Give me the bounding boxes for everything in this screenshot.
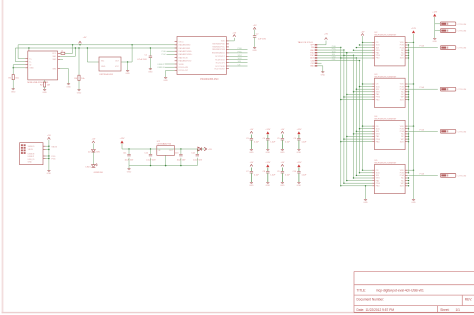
- svg-text:GND: GND: [280, 185, 285, 187]
- connector J2 GND: [440, 29, 466, 33]
- diode D3: [198, 147, 202, 151]
- svg-text:MCP4XXXX-XXXE/ST: MCP4XXXX-XXXE/ST: [375, 35, 398, 37]
- svg-text:L1: L1: [61, 50, 63, 52]
- ground below R4: [77, 90, 82, 95]
- wire U2 pin SCK to bus: [359, 44, 372, 45]
- wire U5 POA out: [407, 172, 437, 175]
- svg-text:Sheet:: Sheet:: [440, 308, 449, 312]
- wire U2 pin WP to rail: [407, 55, 409, 56]
- wire net A horizontal run y=44.8: [18, 45, 177, 59]
- svg-text:GND: GND: [249, 152, 254, 154]
- ground below +12V input: [432, 38, 437, 43]
- svg-text:0.1uF: 0.1uF: [285, 174, 291, 176]
- wire U3 pin PB0 to bus: [340, 99, 372, 100]
- connector J1 +12V: [440, 22, 466, 26]
- svg-text:PB0: PB0: [376, 99, 380, 101]
- wire IC1 net label CS: [229, 65, 248, 67]
- svg-text:SH3: SH3: [53, 68, 57, 70]
- svg-text:VBUS: VBUS: [28, 149, 34, 151]
- wire U2 pin PA0 to bus: [346, 52, 372, 53]
- wire U4 pin SDO to rail: [407, 141, 409, 142]
- svg-text:VCC: VCC: [115, 66, 120, 68]
- svg-text:CTRL0M: CTRL0M: [458, 24, 467, 26]
- svg-text:RB4/KBI0/AN11: RB4/KBI0/AN11: [212, 52, 225, 55]
- wire SV1 net SCK to bus: [317, 51, 347, 53]
- wire X1 pin to net B: [60, 47, 76, 56]
- wire bus column CS1: [359, 61, 361, 173]
- svg-text:RC2/CCP1: RC2/CCP1: [216, 62, 225, 64]
- wire U2 pin NC to rail: [407, 50, 409, 51]
- wire X1 VBUS stub to net B: [28, 47, 29, 49]
- svg-text:PB0: PB0: [376, 58, 380, 60]
- wire SV1 net SDI to bus: [317, 54, 354, 56]
- wire U3 pin NC to rail: [407, 94, 409, 95]
- svg-text:SDI: SDI: [238, 61, 242, 63]
- wire +12V input vertical: [435, 17, 441, 38]
- wire U4 pin CS to bus: [362, 125, 372, 126]
- wire U3 pin NC to rail: [407, 91, 409, 92]
- wire U5 VSS to ground: [365, 185, 366, 199]
- svg-text:RB5/KBI1/PGM: RB5/KBI1/PGM: [212, 49, 225, 51]
- wire SV1 pin 8 stub: [317, 62, 321, 64]
- wire U3 pin VSS to bus: [353, 91, 372, 92]
- regulator IC2 L4931ABDT50: [157, 141, 175, 155]
- wire oscillator ground drop: [127, 62, 129, 70]
- svg-text:SDO: SDO: [400, 186, 405, 188]
- ground below C2: [252, 48, 257, 53]
- svg-text:PB0: PB0: [376, 186, 380, 188]
- oscillator Q1: [99, 57, 121, 76]
- svg-text:RA0/AN0/BM0: RA0/AN0/BM0: [179, 44, 191, 47]
- wire ground rail under regulator: [129, 158, 197, 167]
- wire U2 pin NC to rail: [407, 52, 409, 53]
- wire U3 pin PW0 to bus: [343, 96, 372, 97]
- wire bus column SCK: [346, 53, 348, 181]
- svg-text:Document Number:: Document Number:: [357, 298, 385, 302]
- resistor R1: [9, 75, 20, 80]
- svg-text:VUSB: VUSB: [179, 64, 185, 66]
- wire IC1 net label SDO: [229, 55, 248, 57]
- svg-text:GND: GND: [101, 66, 106, 68]
- capacitor C3 decoupling chain: [246, 129, 260, 154]
- wire U3 pin POB to rail: [407, 86, 409, 87]
- connector output J4: [440, 87, 466, 91]
- svg-text:C9: C9: [277, 171, 279, 173]
- svg-text:REV:: REV:: [465, 298, 472, 302]
- wire SV1 net PGD to bus: [317, 46, 341, 48]
- svg-text:GND: GND: [66, 86, 71, 88]
- connector output J3: [440, 46, 466, 50]
- svg-text:KBTX640U24: KBTX640U24: [100, 74, 114, 76]
- wire U5 pin WP to rail: [407, 183, 409, 184]
- svg-text:SH2: SH2: [53, 59, 57, 61]
- svg-text:CS1: CS1: [332, 59, 336, 61]
- wire bus column +5V: [362, 36, 364, 170]
- wire bus column CS0: [355, 58, 357, 175]
- svg-text:0.1uF 50V: 0.1uF 50V: [146, 159, 156, 161]
- svg-text:GND: GND: [148, 71, 153, 73]
- wire R4 to ground: [78, 81, 80, 90]
- wire U2 POA out: [407, 45, 437, 48]
- title block document number row: [357, 298, 473, 302]
- svg-text:1M: 1M: [47, 85, 50, 87]
- svg-text:C10: C10: [293, 171, 296, 173]
- svg-text:CTRL0M: CTRL0M: [458, 131, 467, 133]
- svg-text:L4931ABDT50: L4931ABDT50: [157, 143, 172, 146]
- wire U5 pin PB0 to bus: [340, 185, 372, 186]
- wire U4 pin NC to rail: [407, 136, 409, 137]
- svg-text:+5V: +5V: [250, 162, 254, 164]
- wire U3 pin SCK to bus: [359, 86, 372, 87]
- svg-text:1.0uF: 1.0uF: [302, 174, 308, 176]
- svg-text:PGD: PGD: [238, 48, 243, 50]
- resistor R2: [40, 82, 50, 87]
- wire U5 pin CS to bus: [362, 170, 372, 171]
- svg-text:mcp-digital-pot-eval-4ch-USB-v: mcp-digital-pot-eval-4ch-USB-v01: [376, 288, 424, 292]
- wire U2 pin CS to bus: [362, 42, 372, 43]
- svg-text:PGC: PGC: [162, 54, 167, 56]
- wire U2 VDD to +12V rail: [407, 42, 414, 43]
- wire U5 pin NC to rail: [407, 177, 409, 178]
- svg-text:GND: GND: [29, 68, 34, 70]
- svg-text:0.1uF: 0.1uF: [254, 174, 260, 176]
- svg-text:10uF 16V: 10uF 16V: [177, 159, 186, 161]
- svg-text:RC7/RX/DT: RC7/RX/DT: [215, 56, 225, 58]
- ground below U5 left: [363, 199, 368, 204]
- capacitor C14 output: [191, 149, 203, 161]
- svg-text:GND: GND: [77, 92, 82, 94]
- wire X1 ID/GND junction to R1: [13, 65, 26, 75]
- ground at regulator rail: [127, 166, 132, 174]
- svg-text:GND: GND: [266, 152, 271, 154]
- supply +5V at SV1: [317, 34, 328, 45]
- wire U5 pin POB to rail: [407, 172, 409, 173]
- svg-text:PGD: PGD: [162, 51, 167, 53]
- wire net B horizontal run y=48: [15, 48, 177, 62]
- wire U2 pin PW0 to bus: [343, 55, 372, 56]
- svg-text:GND: GND: [266, 185, 271, 187]
- wire U2 pin VSS to bus: [353, 50, 372, 51]
- svg-text:POA: POA: [420, 172, 425, 175]
- wire rail A right of pots: [408, 45, 410, 173]
- wire regulator ground pin: [165, 155, 166, 166]
- LED LED1: [86, 164, 98, 169]
- wire U2 pin SDO to rail: [407, 57, 409, 58]
- wire X1 shell to R2: [44, 80, 46, 82]
- svg-text:RC4/D-/VM: RC4/D-/VM: [179, 67, 189, 69]
- svg-text:11/22/2012 9:57 PM: 11/22/2012 9:57 PM: [366, 308, 395, 312]
- ground below SV1: [321, 72, 326, 77]
- svg-text:C3: C3: [246, 138, 248, 140]
- svg-text:GND: GND: [127, 171, 132, 173]
- svg-text:GND: GND: [411, 202, 416, 204]
- svg-text:C14: C14: [191, 153, 194, 155]
- wire U4 POA out: [407, 128, 437, 131]
- svg-text:RA4/T0CKI: RA4/T0CKI: [179, 56, 189, 59]
- wire C2 to ground: [254, 37, 256, 47]
- wire U4 pin PW0 to bus: [343, 138, 372, 139]
- svg-text:C6: C6: [294, 138, 296, 140]
- svg-text:GND: GND: [280, 152, 285, 154]
- wire U4 pin SCK to bus: [359, 128, 372, 129]
- wire J2 to +5V rail: [46, 140, 50, 171]
- microcontroller IC1 PIC18F2455: [175, 37, 229, 81]
- supply +5V at C2: [253, 25, 257, 29]
- wire SV1 net PGC to bus: [317, 49, 344, 51]
- wire U4 pin SDI to bus: [356, 131, 373, 132]
- wire U3 pin SDO to rail: [407, 99, 409, 100]
- svg-text:SDO: SDO: [400, 99, 405, 101]
- capacitor C11 input: [123, 149, 134, 161]
- svg-text:PA0: PA0: [376, 52, 379, 55]
- capacitor C2: [253, 34, 267, 41]
- capacitor C10 decoupling chain: [293, 162, 308, 187]
- wire U5 VDD to +12V rail: [407, 170, 414, 171]
- LED1 value label: [94, 172, 104, 174]
- svg-text:1.0uF: 1.0uF: [270, 174, 276, 176]
- wire U4 pin PB0 to bus: [340, 141, 372, 142]
- svg-text:MCP4XXXX-XXXE/ST: MCP4XXXX-XXXE/ST: [375, 163, 398, 165]
- svg-text:CTRL0M: CTRL0M: [458, 175, 467, 177]
- svg-text:C7: C7: [246, 171, 248, 173]
- svg-text:Date:: Date:: [357, 308, 365, 312]
- svg-text:TITLE:: TITLE:: [357, 288, 367, 292]
- wire net B tap to R4: [78, 47, 79, 75]
- connector output J5: [440, 129, 466, 133]
- title block TITLE text: [357, 288, 425, 292]
- wire +5V to D2: [92, 143, 94, 149]
- wire IC1 VSS to ground: [166, 70, 175, 77]
- svg-text:C5: C5: [277, 138, 279, 140]
- capacitor C1: [137, 54, 152, 61]
- title block date row: [357, 308, 461, 312]
- svg-text:GND: GND: [163, 80, 168, 82]
- svg-text:+5V: +5V: [253, 25, 257, 27]
- ground below IC1: [163, 77, 168, 82]
- wire SV1 net CS0 to bus: [317, 57, 357, 59]
- supply +12V at regulator input: [120, 138, 126, 143]
- svg-text:RA5/AN4/HLVD: RA5/AN4/HLVD: [179, 60, 192, 63]
- capacitor C13 output: [175, 149, 186, 161]
- wire X1 D- to net B: [15, 61, 25, 63]
- svg-text:1.0uF: 1.0uF: [270, 141, 276, 143]
- svg-text:+12V: +12V: [296, 162, 302, 164]
- wire L1 to net A: [65, 44, 74, 53]
- wire U4 pin POB to rail: [407, 128, 409, 129]
- wire U3 pin PA0 to bus: [346, 94, 372, 95]
- wire U3 pin WP to rail: [407, 96, 409, 97]
- svg-text:MCP4XXXX-XXXE/ST: MCP4XXXX-XXXE/ST: [375, 118, 398, 120]
- supply +5V at bus column: [361, 31, 365, 35]
- svg-text:POA: POA: [420, 45, 425, 48]
- svg-text:RA1/AN1/BM1: RA1/AN1/BM1: [179, 47, 191, 50]
- svg-text:RA3/AN3/VREF+: RA3/AN3/VREF+: [179, 53, 193, 56]
- svg-text:GND: GND: [42, 92, 47, 94]
- svg-text:CTRL0M: CTRL0M: [458, 48, 467, 50]
- wire X1 D+ to net A: [18, 58, 25, 60]
- svg-text:GND: GND: [432, 41, 437, 43]
- svg-text:SHIELD: SHIELD: [28, 146, 35, 148]
- wire U3 pin CS to bus: [362, 83, 372, 84]
- wire U4 pin VSS to bus: [353, 133, 372, 134]
- svg-text:PB0: PB0: [376, 141, 380, 143]
- wire R1 to ground: [12, 80, 14, 89]
- wire +12V to regulator input rail: [122, 144, 197, 150]
- svg-text:SDO: SDO: [400, 141, 405, 143]
- svg-text:RC0/T1OSO: RC0/T1OSO: [215, 68, 226, 70]
- svg-text:LED1: LED1: [86, 167, 92, 169]
- svg-text:GND: GND: [47, 173, 52, 175]
- digital pot U4 MCP4XXXX: [372, 116, 407, 150]
- svg-text:+12V: +12V: [296, 129, 302, 131]
- svg-text:MCP4XXXX-XXXE/ST: MCP4XXXX-XXXE/ST: [375, 76, 398, 78]
- svg-text:OSC1: OSC1: [179, 41, 184, 43]
- wire IC1 net label PGC: [229, 51, 248, 53]
- wire +12V rail right of pots: [413, 34, 415, 199]
- connector J2 USB power: [20, 143, 46, 165]
- svg-text:SDO: SDO: [400, 58, 405, 60]
- svg-text:+5V: +5V: [281, 162, 285, 164]
- wire U5 pin SDO to rail: [407, 185, 409, 186]
- svg-text:CTRL0M: CTRL0M: [458, 89, 467, 91]
- wire U5 pin VSS to bus: [353, 177, 372, 178]
- wire SV1 net CS1 to bus: [317, 59, 360, 61]
- wire X1 GND pin to ground: [60, 69, 68, 84]
- svg-text:+12V: +12V: [411, 28, 417, 30]
- wire U3 VDD to +12V rail: [407, 83, 414, 84]
- svg-text:C8: C8: [263, 171, 265, 173]
- svg-text:PA0: PA0: [376, 135, 379, 138]
- svg-text:PIC18F2455-I/SO: PIC18F2455-I/SO: [200, 79, 218, 81]
- wire IC1 net label PGC: [162, 54, 175, 56]
- svg-text:GND: GND: [125, 73, 130, 75]
- wire U5 pin NC to rail: [407, 180, 409, 181]
- capacitor C8 decoupling chain: [263, 162, 277, 187]
- supply +5V at regulator output: [202, 147, 213, 151]
- svg-text:+12V: +12V: [265, 129, 271, 131]
- capacitor C9 decoupling chain: [277, 162, 291, 187]
- wire IC1 net label PGD: [229, 48, 248, 50]
- svg-text:4.7uF 16V: 4.7uF 16V: [137, 59, 147, 61]
- supply +5V at IC1 VDD: [229, 32, 237, 41]
- capacitor C4 decoupling chain: [263, 129, 277, 154]
- svg-text:GND: GND: [297, 152, 302, 154]
- title block: [354, 272, 474, 313]
- svg-text:PA0: PA0: [376, 93, 379, 96]
- svg-text:+5V: +5V: [250, 129, 254, 131]
- svg-text:+12V: +12V: [265, 162, 271, 164]
- wire bus column PGC: [343, 50, 345, 183]
- digital pot U5 MCP4XXXX: [372, 160, 407, 194]
- wire X1 shield pin stub: [60, 58, 63, 60]
- svg-text:RB7/KBI3/PGD: RB7/KBI3/PGD: [212, 44, 225, 46]
- svg-text:GND: GND: [11, 91, 16, 93]
- wire U4 pin PA0 to bus: [346, 136, 372, 137]
- svg-text:GND: GND: [28, 161, 33, 163]
- svg-text:USBDN: USBDN: [157, 67, 165, 69]
- sheet frame left edge: [2, 0, 4, 313]
- svg-text:GND: GND: [363, 202, 368, 204]
- wire R2 to ground: [44, 87, 46, 89]
- digital pot U3 MCP4XXXX: [372, 74, 407, 108]
- wire bus column SDI: [353, 55, 355, 178]
- wire U5 pin PW0 to bus: [343, 183, 372, 184]
- svg-text:1.0uF 50V: 1.0uF 50V: [193, 159, 203, 161]
- ground below R1: [11, 89, 16, 94]
- svg-text:C13: C13: [175, 153, 178, 155]
- svg-text:POA: POA: [420, 86, 425, 89]
- svg-text:POA: POA: [420, 128, 425, 131]
- wire U2 pin SDI to bus: [356, 47, 373, 48]
- wire SV1 pin 9 to ground: [317, 66, 323, 72]
- svg-text:RC5/D+/VP: RC5/D+/VP: [179, 70, 189, 72]
- svg-text:+5V: +5V: [83, 37, 87, 39]
- sheet frame bottom edge: [2, 312, 474, 314]
- svg-text:C12: C12: [144, 153, 147, 155]
- wire bus column PGD: [340, 47, 342, 185]
- connector X1 mini-USB: [25, 50, 60, 85]
- ground below J2: [47, 171, 52, 176]
- svg-text:VBUS: VBUS: [51, 146, 57, 148]
- svg-text:1/1: 1/1: [456, 308, 461, 312]
- svg-text:VCC: VCC: [52, 53, 57, 55]
- supply +12V at pot rail: [411, 28, 417, 33]
- wire IC1 net label PGD: [162, 51, 175, 53]
- connector output J6: [440, 174, 466, 178]
- svg-text:+5V: +5V: [281, 129, 285, 131]
- svg-text:PGC: PGC: [238, 51, 243, 53]
- supply +12V input top right: [432, 12, 438, 17]
- capacitor C5 decoupling chain: [277, 129, 291, 154]
- svg-text:0.1uF: 0.1uF: [254, 141, 260, 143]
- wire IC1 net label USBDN: [157, 67, 174, 69]
- digital pot U2 MCP4XXXX: [372, 32, 407, 66]
- wire U4 pin WP to rail: [407, 138, 409, 139]
- svg-text:+5V: +5V: [324, 34, 328, 36]
- ferrite bead L1: [60, 50, 65, 54]
- diode D2: [88, 150, 101, 154]
- svg-text:USBDP: USBDP: [157, 64, 165, 66]
- wire U4 VDD to +12V rail: [407, 125, 414, 126]
- svg-text:1.0uF: 1.0uF: [302, 141, 308, 143]
- supply +5V at LED chain: [92, 139, 96, 143]
- ground right of X1: [66, 84, 71, 89]
- supply +5V at J2: [47, 135, 51, 139]
- svg-text:+5V: +5V: [47, 135, 51, 137]
- wire C1 to ground: [149, 58, 151, 69]
- wire U5 pin PA0 to bus: [346, 180, 372, 181]
- node VBUS label: [51, 146, 57, 148]
- svg-text:+12V: +12V: [432, 12, 438, 14]
- svg-text:GND: GND: [297, 185, 302, 187]
- resistor R4: [74, 75, 85, 80]
- wire oscillator output: [121, 61, 132, 62]
- wire IC1 net label SCK: [229, 58, 248, 60]
- capacitor C7 decoupling chain: [246, 162, 260, 187]
- wire +5V to C2: [254, 29, 256, 35]
- svg-text:SCK: SCK: [238, 58, 243, 60]
- ground below oscillator: [125, 71, 130, 76]
- wire net A drop to oscillator output: [131, 44, 132, 62]
- wire D2 to LED1: [92, 152, 94, 165]
- svg-text:RC6/TX/CK: RC6/TX/CK: [215, 60, 225, 62]
- wire U5 pin SDI to bus: [356, 175, 373, 176]
- wire U5 pin SCK to bus: [359, 172, 372, 173]
- capacitor C12: [144, 149, 156, 161]
- wire U3 POA out: [407, 86, 437, 89]
- svg-text:C11: C11: [123, 153, 126, 155]
- svg-text:0.1uF: 0.1uF: [285, 141, 291, 143]
